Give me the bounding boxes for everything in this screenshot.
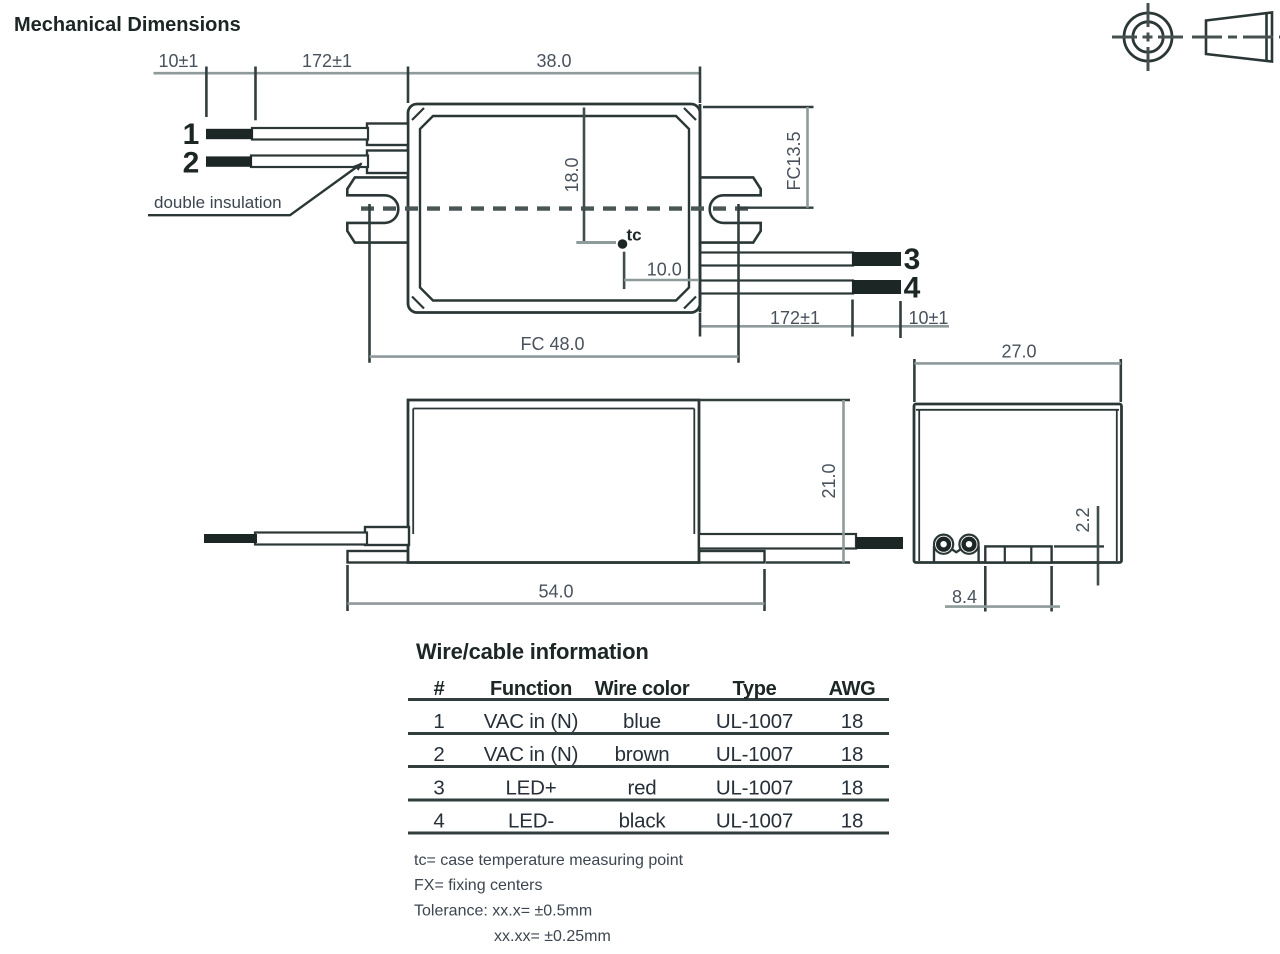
flange (side view) bbox=[348, 551, 765, 563]
svg-text:4: 4 bbox=[433, 810, 444, 833]
svg-text:10±1: 10±1 bbox=[909, 308, 949, 328]
svg-text:3: 3 bbox=[433, 777, 444, 800]
svg-text:xx.xx= ±0.25mm: xx.xx= ±0.25mm bbox=[494, 928, 611, 945]
extension ticks top dims bbox=[206, 67, 700, 121]
left bushing (side view) bbox=[365, 527, 409, 545]
svg-text:UL-1007: UL-1007 bbox=[716, 710, 793, 733]
FC 48.0 dimension bbox=[370, 204, 739, 363]
svg-text:brown: brown bbox=[615, 743, 670, 766]
dashed centerline top view bbox=[361, 206, 750, 210]
table row 4 bbox=[433, 810, 863, 833]
wire hole left bbox=[934, 535, 953, 554]
bushing wire1 bbox=[367, 124, 408, 146]
case box (end view) bbox=[914, 404, 1122, 563]
wire 4 white bbox=[700, 281, 853, 294]
FC13.5 dimension bbox=[703, 107, 814, 208]
svg-text:18: 18 bbox=[841, 810, 863, 833]
connector block bbox=[985, 546, 1051, 562]
svg-text:4: 4 bbox=[904, 272, 921, 305]
27.0 dimension bbox=[914, 359, 1120, 402]
wire 3 black tip bbox=[852, 252, 901, 266]
wire 2 white bbox=[251, 156, 368, 168]
wire hole boss bbox=[934, 546, 979, 562]
footnotes bbox=[414, 852, 684, 945]
svg-text:18: 18 bbox=[841, 777, 863, 800]
svg-text:black: black bbox=[619, 810, 667, 833]
svg-text:LED-: LED- bbox=[508, 810, 554, 833]
svg-text:red: red bbox=[627, 777, 656, 800]
right wire black tip (side view) bbox=[856, 537, 903, 549]
left wire white (side view) bbox=[255, 533, 367, 545]
case body inner (top view) bbox=[420, 116, 689, 301]
svg-text:27.0: 27.0 bbox=[1001, 342, 1036, 362]
table row 2 bbox=[433, 743, 863, 766]
svg-text:2: 2 bbox=[433, 743, 444, 766]
left ear (fixing bracket) bbox=[347, 177, 408, 242]
wire 2 black tip bbox=[206, 156, 252, 166]
svg-text:2: 2 bbox=[183, 147, 200, 180]
bushing wire2 bbox=[367, 151, 408, 174]
svg-text:UL-1007: UL-1007 bbox=[716, 810, 793, 833]
svg-text:Mechanical Dimensions: Mechanical Dimensions bbox=[14, 14, 241, 36]
21.0 dimension bbox=[699, 400, 850, 563]
svg-text:FC13.5: FC13.5 bbox=[784, 131, 804, 190]
svg-text:AWG: AWG bbox=[829, 678, 876, 700]
table rules bbox=[408, 700, 889, 834]
svg-text:UL-1007: UL-1007 bbox=[716, 743, 793, 766]
body right edge redraw bbox=[699, 104, 702, 312]
2.2 dimension bbox=[1054, 545, 1104, 547]
svg-text:Function: Function bbox=[490, 678, 572, 700]
svg-text:10.0: 10.0 bbox=[647, 260, 682, 280]
case body outer (top view) bbox=[408, 104, 700, 313]
svg-text:blue: blue bbox=[623, 710, 661, 733]
left wire black tip (side view) bbox=[204, 534, 257, 543]
svg-text:VAC in (N): VAC in (N) bbox=[484, 710, 578, 733]
svg-text:tc: tc bbox=[627, 226, 642, 245]
svg-text:18.0: 18.0 bbox=[562, 157, 582, 192]
svg-text:Tolerance: xx.x= ±0.5mm: Tolerance: xx.x= ±0.5mm bbox=[414, 903, 592, 920]
projection symbol circle bbox=[1112, 3, 1184, 71]
wire 1 white bbox=[252, 128, 368, 140]
table row 3 bbox=[433, 777, 863, 800]
case box (side view) bbox=[408, 400, 699, 563]
wire hole right bbox=[959, 535, 978, 554]
svg-text:FC 48.0: FC 48.0 bbox=[520, 334, 584, 354]
svg-text:UL-1007: UL-1007 bbox=[716, 777, 793, 800]
lid lines (end view) bbox=[916, 410, 1119, 561]
table header bbox=[434, 678, 876, 700]
svg-text:FX= fixing centers: FX= fixing centers bbox=[414, 877, 543, 894]
18.0 dimension bbox=[583, 108, 586, 243]
svg-text:2.2: 2.2 bbox=[1073, 507, 1093, 532]
svg-text:18: 18 bbox=[841, 743, 863, 766]
svg-text:172±1: 172±1 bbox=[302, 51, 352, 71]
svg-text:VAC in (N): VAC in (N) bbox=[484, 743, 578, 766]
svg-text:172±1: 172±1 bbox=[770, 308, 820, 328]
right dim line 172+-1 / 10+-1 bbox=[700, 325, 949, 328]
svg-text:10±1: 10±1 bbox=[159, 51, 199, 71]
svg-text:LED+: LED+ bbox=[505, 777, 556, 800]
leader line double insulation bbox=[148, 164, 362, 216]
projection symbol cone bbox=[1192, 13, 1280, 62]
svg-text:Wire/cable information: Wire/cable information bbox=[416, 639, 649, 664]
54.0 dimension bbox=[348, 565, 765, 611]
svg-text:Type: Type bbox=[733, 678, 777, 700]
10.0 dimension bbox=[623, 252, 626, 289]
wire 3 white bbox=[700, 253, 853, 266]
svg-text:38.0: 38.0 bbox=[536, 51, 571, 71]
svg-text:21.0: 21.0 bbox=[819, 463, 839, 498]
tc point bbox=[618, 239, 628, 249]
wire 1 black tip bbox=[206, 129, 253, 139]
svg-text:#: # bbox=[434, 678, 445, 700]
svg-text:double insulation: double insulation bbox=[154, 193, 282, 212]
dim line 10+-1 / 172+-1 / 38.0 bbox=[154, 72, 702, 75]
svg-text:54.0: 54.0 bbox=[538, 582, 573, 602]
right ear (fixing bracket) bbox=[700, 177, 761, 242]
8.4 dimension bbox=[985, 566, 1051, 612]
svg-text:tc= case temperature measuring: tc= case temperature measuring point bbox=[414, 852, 684, 869]
svg-text:Wire color: Wire color bbox=[595, 678, 690, 700]
wire 4 black tip bbox=[852, 280, 901, 294]
lid lines (side view) bbox=[413, 409, 694, 535]
right wire white (side view) bbox=[699, 534, 856, 549]
svg-text:18: 18 bbox=[841, 710, 863, 733]
svg-text:8.4: 8.4 bbox=[952, 587, 977, 607]
svg-text:1: 1 bbox=[433, 710, 444, 733]
corner diagonals bbox=[412, 108, 696, 309]
table row 1 bbox=[433, 710, 863, 733]
